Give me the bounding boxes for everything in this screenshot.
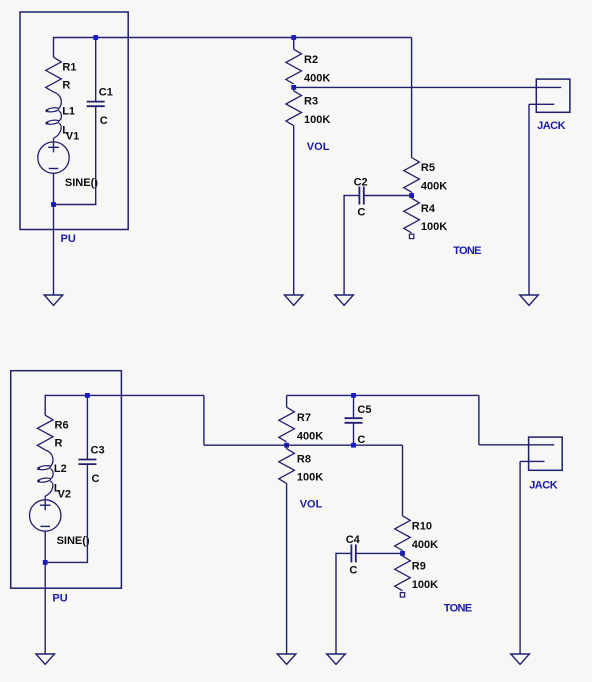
svg-text:R3: R3	[304, 96, 318, 108]
wire: hot bus jog down	[203, 395, 205, 445]
inductor L1	[54, 92, 62, 142]
pickup box PU (top)	[20, 12, 128, 230]
svg-text:100K: 100K	[421, 221, 447, 233]
resistor R10	[395, 516, 411, 551]
junction: C5 bottom node	[351, 443, 356, 448]
wire: R7 top wire to C5/jack	[287, 394, 479, 396]
resistor R1	[46, 57, 62, 92]
wire: R3 top lead	[293, 87, 295, 91]
wire: R1 top lead	[53, 37, 55, 58]
capacitor C4	[350, 544, 352, 562]
wire: bottom hot bus (PU to jog)	[45, 394, 204, 396]
svg-text:C5: C5	[357, 404, 371, 416]
wire: R4 top lead	[411, 196, 413, 199]
svg-text:C: C	[357, 207, 365, 219]
wire: jack sleeve ground drop (top)	[528, 104, 530, 295]
wire: jack sleeve stub (bottom)	[520, 460, 544, 462]
wire: return node to C1 bottom	[54, 204, 96, 206]
resistor R5	[404, 158, 420, 193]
ground: pickup (bottom)	[36, 654, 55, 664]
wire: wiper wire drop to R10	[402, 445, 404, 516]
svg-text:R2: R2	[304, 54, 318, 66]
capacitor C1	[87, 101, 105, 103]
terminal: R9 bottom open pin	[400, 593, 404, 597]
svg-text:SINE(): SINE()	[65, 177, 98, 189]
ground: jack (bottom)	[511, 654, 530, 664]
wire: hot bus drop to R5	[411, 38, 413, 158]
resistor R3	[286, 91, 302, 126]
svg-text:C: C	[92, 473, 100, 485]
wire: C2 left to ground corner	[344, 195, 359, 197]
junction: pickup return node (V1/C1)	[51, 202, 56, 207]
junction: C3 on hot bus	[85, 393, 90, 398]
capacitor C3	[78, 459, 96, 461]
wire: C5 top wire drop to jack	[478, 395, 480, 444]
junction: R2 top on hot bus	[291, 35, 296, 40]
junction: C1 on hot bus	[93, 35, 98, 40]
wire: jog to volume wiper	[204, 444, 287, 446]
svg-text:R: R	[62, 80, 70, 92]
wire: C4 ground drop (bottom)	[335, 553, 337, 654]
connector JACK (bottom)	[529, 437, 563, 470]
svg-text:R: R	[55, 437, 63, 449]
svg-text:PU: PU	[61, 233, 76, 245]
wire: jack sleeve ground drop (bottom)	[519, 461, 521, 654]
junction: volume wiper node (top)	[291, 85, 296, 90]
svg-text:100K: 100K	[297, 472, 323, 484]
ground: volume pot (bottom)	[277, 654, 296, 664]
svg-text:400K: 400K	[304, 73, 330, 85]
svg-text:VOL: VOL	[300, 499, 323, 511]
wire: pickup ground drop (top)	[53, 205, 55, 296]
resistor R6	[37, 415, 53, 450]
svg-text:TONE: TONE	[453, 245, 481, 257]
svg-text:C: C	[349, 565, 357, 577]
svg-text:V2: V2	[58, 488, 71, 500]
svg-text:VOL: VOL	[307, 141, 330, 153]
wire: tone wiper to C2	[364, 195, 412, 197]
junction: pickup return node (V2/C3)	[43, 560, 48, 565]
junction: C5 top node	[351, 393, 356, 398]
capacitor C1 top lead	[95, 37, 97, 102]
resistor R7	[279, 407, 295, 442]
wire: R6 top lead	[44, 395, 46, 416]
junction: volume wiper node (bottom)	[284, 443, 289, 448]
wire: R2 top lead	[293, 38, 295, 50]
capacitor C1 bottom lead	[95, 106, 97, 205]
svg-text:L1: L1	[62, 105, 75, 117]
wire: R9 top lead	[402, 553, 404, 556]
resistor R9	[395, 556, 411, 591]
svg-text:R4: R4	[421, 203, 436, 215]
wire: jack tip wire (bottom)	[479, 444, 554, 446]
svg-text:400K: 400K	[421, 181, 447, 193]
ground: tone cap (top)	[335, 295, 354, 305]
resistor R2	[286, 49, 302, 84]
capacitor C3 bottom lead	[86, 464, 88, 563]
pickup box PU (bottom)	[11, 371, 122, 589]
svg-text:R9: R9	[412, 561, 426, 573]
capacitor C2	[358, 187, 360, 205]
svg-text:TONE: TONE	[444, 603, 472, 615]
svg-text:400K: 400K	[297, 430, 323, 442]
wire: R8 bottom to ground (bottom)	[286, 483, 288, 654]
svg-text:JACK: JACK	[537, 120, 566, 132]
svg-text:C2: C2	[354, 176, 368, 188]
svg-text:R5: R5	[421, 162, 435, 174]
svg-text:C1: C1	[99, 86, 113, 98]
junction: tone wiper node (top)	[409, 193, 414, 198]
ground: pickup (top)	[44, 295, 63, 305]
wire: top hot bus from R1/C1 to tone column	[54, 37, 412, 39]
junction: tone wiper node (bottom)	[400, 551, 405, 556]
capacitor C3 top lead	[86, 395, 88, 460]
svg-text:V1: V1	[66, 130, 79, 142]
svg-text:SINE(): SINE()	[57, 535, 90, 547]
svg-text:100K: 100K	[304, 114, 330, 126]
svg-text:R1: R1	[62, 62, 76, 74]
wire: V1 bottom lead to return node	[53, 173, 55, 204]
wire: R10 bottom lead	[402, 551, 404, 554]
wire: R7 top lead	[286, 395, 288, 407]
svg-text:100K: 100K	[412, 579, 438, 591]
resistor R8	[279, 449, 295, 484]
svg-text:R6: R6	[55, 419, 69, 431]
resistor R4	[404, 198, 420, 233]
svg-text:C: C	[100, 115, 108, 127]
wire: volume wiper to tone column	[287, 444, 403, 446]
capacitor C5 bottom lead	[353, 423, 355, 445]
svg-text:R7: R7	[297, 412, 311, 424]
svg-text:400K: 400K	[412, 539, 438, 551]
capacitor C5 top lead	[353, 395, 355, 418]
wire: tone wiper to C4	[355, 552, 402, 554]
wire: R3 bottom to ground (top)	[293, 126, 295, 295]
wire: V2 bottom lead to return node	[44, 531, 46, 562]
capacitor C5	[345, 417, 363, 419]
wire: C4 left to ground corner	[336, 552, 351, 554]
wire: R5 bottom lead	[411, 192, 413, 195]
voltage source V2	[30, 500, 61, 531]
svg-text:L2: L2	[54, 463, 67, 475]
svg-text:R10: R10	[412, 520, 432, 532]
wire: pickup ground drop (bottom)	[44, 562, 46, 654]
wire: jack sleeve stub (top)	[529, 103, 554, 105]
wire: volume wiper to jack tip (top)	[294, 86, 562, 88]
svg-text:C3: C3	[91, 444, 105, 456]
inductor L2	[45, 450, 53, 500]
voltage source V1	[38, 142, 69, 173]
svg-text:R8: R8	[297, 453, 311, 465]
wire: C2 ground drop (top)	[343, 195, 345, 295]
svg-text:PU: PU	[52, 593, 67, 605]
ground: jack (top)	[520, 295, 539, 305]
ground: tone cap (bottom)	[327, 654, 346, 664]
wire: R8 top lead	[286, 445, 288, 449]
svg-text:C: C	[357, 434, 365, 446]
svg-text:JACK: JACK	[529, 480, 558, 492]
wire: return node to C3 bottom	[45, 561, 87, 563]
terminal: R4 bottom open pin	[409, 234, 413, 238]
svg-text:C4: C4	[346, 534, 361, 546]
connector JACK (top)	[536, 79, 570, 112]
ground: volume pot (top)	[284, 295, 303, 305]
